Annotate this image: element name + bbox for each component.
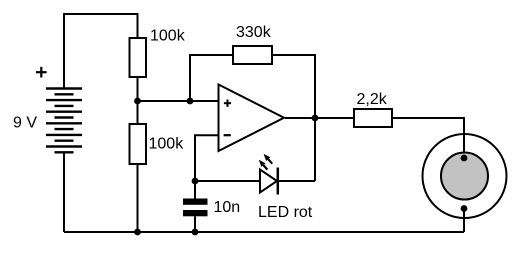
wire R2 to bottom rail	[137, 164, 139, 232]
wire op-amp output to node	[285, 117, 315, 119]
node dot capacitor junction	[192, 178, 199, 185]
LED emission arrow 1	[259, 160, 268, 170]
LED D1 triangle	[260, 170, 277, 193]
node dot capacitor ground junction	[192, 229, 199, 236]
capacitor C1 10n plates	[183, 199, 208, 205]
wire feedback node up to 330k	[190, 55, 233, 101]
wire op-amp - input down to capacitor node	[195, 135, 219, 181]
svg-text:100k: 100k	[150, 28, 186, 45]
wire cap bottom lead	[194, 216, 196, 232]
node dot R2 ground junction	[134, 229, 141, 236]
wire R4 to speaker top	[392, 118, 464, 158]
resistor R2 100k	[130, 124, 147, 164]
speaker LS1 inner disc	[441, 153, 488, 200]
wire 330k to output node	[272, 55, 315, 118]
wire LED cathode to right vertical	[278, 180, 315, 182]
bottom rail wire	[64, 231, 464, 233]
resistor R1 100k	[130, 38, 147, 77]
wire battery - to bottom rail	[63, 152, 65, 232]
wire top rail from battery + to R1	[64, 14, 138, 89]
LED cathode bar	[277, 168, 280, 195]
resistor R3 330k	[233, 46, 272, 64]
node dot feedback junction	[187, 98, 194, 105]
op-amp - input marking	[224, 134, 231, 136]
op-amp U1 triangle	[219, 85, 285, 152]
wire cap top lead	[194, 181, 196, 199]
svg-text:9 V: 9 V	[13, 115, 37, 132]
battery B1 9V plates	[46, 89, 82, 153]
wire node A to R2	[137, 101, 139, 124]
wire node A to op-amp + input	[138, 100, 219, 102]
node dot speaker bottom terminal	[461, 205, 468, 212]
node dot divider junction	[134, 98, 141, 105]
wire capacitor node to LED anode	[195, 180, 260, 182]
speaker LS1 outer circle	[423, 134, 507, 218]
svg-text:2,2k: 2,2k	[357, 91, 388, 108]
wire output node down to LED wire	[314, 118, 316, 181]
node dot output junction	[312, 115, 319, 122]
svg-text:100k: 100k	[149, 136, 185, 153]
wire R1 to node A	[137, 77, 139, 101]
node dot speaker top terminal	[461, 155, 468, 162]
LED emission arrow 2	[264, 154, 273, 164]
svg-text:10n: 10n	[214, 199, 241, 216]
svg-text:LED rot: LED rot	[258, 204, 313, 221]
resistor R4 2,2k	[354, 109, 392, 127]
wire speaker bottom to rail	[463, 209, 465, 233]
wire output node to R4	[315, 117, 354, 119]
op-amp + input marking	[224, 100, 231, 107]
battery plus sign label	[36, 67, 47, 78]
svg-text:330k: 330k	[236, 24, 272, 41]
